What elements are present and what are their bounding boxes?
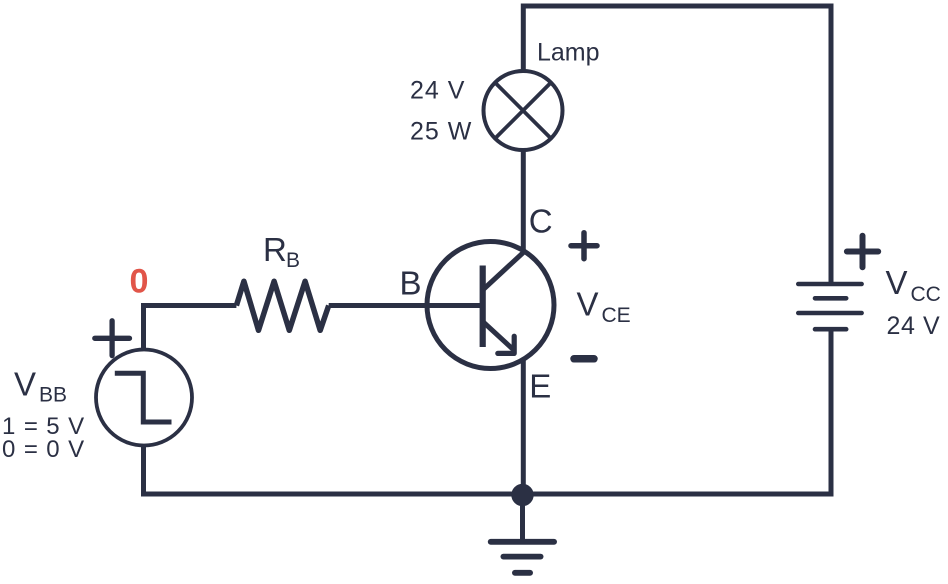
lamp X diagonals <box>495 83 551 139</box>
plus sign at VCC <box>847 236 878 267</box>
svg-text:V: V <box>577 286 599 323</box>
svg-text:V: V <box>14 365 36 402</box>
transistor collector diagonal <box>483 253 524 291</box>
svg-text:25 W: 25 W <box>410 118 472 146</box>
svg-text:CE: CE <box>602 304 631 327</box>
svg-text:V: V <box>886 264 908 301</box>
junction node dot <box>511 484 533 506</box>
transistor emitter arrowhead <box>498 336 514 353</box>
wire ground stub <box>520 495 525 542</box>
wire emitter to junction <box>521 358 526 495</box>
svg-text:24 V: 24 V <box>887 312 941 340</box>
plus sign at VCE <box>571 233 597 259</box>
plus sign at VBB <box>95 321 130 356</box>
svg-text:B: B <box>400 264 422 301</box>
svg-text:R: R <box>263 231 287 268</box>
wire top rail from lamp top up and across to battery top <box>523 6 831 282</box>
svg-text:CC: CC <box>911 283 941 306</box>
wire bottom rail: source bottom, down, across, up to battery bottom <box>144 329 832 494</box>
source VBB step waveform <box>115 373 172 422</box>
svg-text:24 V: 24 V <box>410 76 465 104</box>
svg-text:Lamp: Lamp <box>537 39 600 67</box>
minus sign at VCE <box>574 355 594 363</box>
svg-text:0 = 0 V: 0 = 0 V <box>2 436 85 463</box>
svg-text:E: E <box>529 368 551 405</box>
resistor RB zigzag <box>236 281 328 330</box>
transistor emitter diagonal <box>483 322 513 350</box>
source VBB circle <box>96 350 192 446</box>
wire resistor to base <box>329 303 480 308</box>
lamp circle <box>484 71 563 150</box>
transistor base bar <box>480 266 486 348</box>
svg-text:0: 0 <box>130 263 149 301</box>
transistor Q1 circle <box>427 242 554 369</box>
svg-text:C: C <box>529 203 553 240</box>
ground symbol <box>491 539 554 545</box>
wire lamp bottom to collector <box>521 150 526 252</box>
wire node 0 corner: resistor left lead down to source top <box>144 306 237 350</box>
battery VCC plates <box>798 284 861 313</box>
svg-text:B: B <box>286 249 300 272</box>
svg-text:BB: BB <box>39 384 67 407</box>
